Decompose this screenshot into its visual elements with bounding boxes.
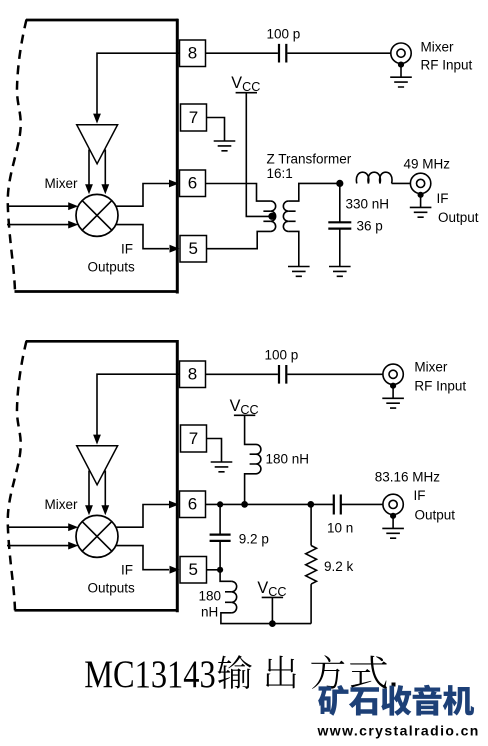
svg-text:10 n: 10 n — [327, 521, 353, 536]
svg-text:RF Input: RF Input — [421, 58, 473, 73]
svg-text:7: 7 — [189, 108, 198, 127]
svg-text:8: 8 — [188, 44, 197, 63]
svg-text:6: 6 — [188, 174, 197, 193]
svg-text:Mixer: Mixer — [414, 360, 448, 375]
svg-text:5: 5 — [189, 239, 198, 258]
svg-text:MC13143: MC13143 — [84, 653, 216, 696]
svg-text:36 p: 36 p — [357, 219, 383, 234]
svg-text:Output: Output — [438, 210, 479, 225]
svg-text:16:1: 16:1 — [267, 166, 293, 181]
svg-text:www.crystalradio.cn: www.crystalradio.cn — [317, 723, 480, 739]
svg-text:nH: nH — [201, 605, 218, 620]
svg-text:180: 180 — [199, 589, 222, 604]
svg-text:Z Transformer: Z Transformer — [267, 152, 352, 167]
svg-text:83.16 MHz: 83.16 MHz — [375, 470, 441, 485]
svg-text:IF: IF — [437, 191, 449, 206]
svg-text:Mixer: Mixer — [421, 40, 455, 55]
svg-text:Mixer: Mixer — [45, 176, 79, 191]
svg-text:100 p: 100 p — [267, 27, 301, 42]
svg-text:100 p: 100 p — [265, 348, 299, 363]
svg-text:Output: Output — [415, 508, 456, 523]
svg-text:9.2 p: 9.2 p — [239, 532, 269, 547]
svg-text:180 nH: 180 nH — [266, 452, 310, 467]
svg-text:330 nH: 330 nH — [346, 197, 390, 212]
svg-text:RF Input: RF Input — [414, 379, 466, 394]
svg-text:49 MHz: 49 MHz — [404, 157, 451, 172]
svg-text:IF: IF — [414, 488, 426, 503]
svg-text:IF: IF — [121, 242, 133, 257]
svg-text:9.2 k: 9.2 k — [324, 559, 354, 574]
svg-text:Outputs: Outputs — [88, 260, 136, 275]
